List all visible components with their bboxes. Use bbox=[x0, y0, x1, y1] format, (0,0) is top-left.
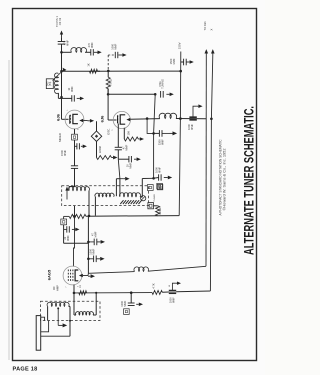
resistor R3 6800 ohm vertical bbox=[156, 206, 160, 216]
coil L1 (converter output) bbox=[71, 48, 87, 53]
coil L5 rf plate bbox=[95, 193, 114, 197]
tube V3 cathode arrow left bbox=[79, 274, 83, 277]
wire v below C1 bbox=[61, 44, 63, 71]
wire L3 to B+ vertical bbox=[176, 118, 206, 120]
schematic border frame bbox=[13, 9, 257, 361]
feedthrough capacitor C16 thick bbox=[169, 290, 176, 292]
svg-text:MMF: MMF bbox=[172, 58, 176, 64]
wire choke to feed1 bbox=[148, 266, 206, 271]
resistor R1 on bus bbox=[90, 69, 98, 73]
tube V3 rf amp envelope bbox=[63, 266, 82, 285]
svg-text:MMF: MMF bbox=[70, 86, 74, 92]
resistor R8 2200 ohm bbox=[97, 156, 112, 160]
feed wire 1 vertical bbox=[205, 55, 207, 266]
svg-text:OSC.: OSC. bbox=[106, 128, 110, 135]
bus wire to B+ vertical bbox=[98, 70, 181, 72]
svg-text:24.2: 24.2 bbox=[47, 81, 49, 86]
node junction at right vertical bbox=[210, 118, 213, 121]
tube V2 oscillator envelope bbox=[113, 111, 130, 128]
svg-text:MMF: MMF bbox=[113, 43, 117, 49]
antenna dashed box bbox=[41, 301, 101, 320]
wire osc cathode down to ground stub bbox=[118, 159, 120, 179]
feedthrough capacitor C7 (thick plates) bbox=[189, 116, 196, 118]
capacitor C13 22MMF branch bbox=[64, 228, 67, 230]
ground arrow after C13 bbox=[72, 228, 75, 230]
capacitor C15 1500MMF bbox=[88, 258, 93, 260]
tube V1 mixer envelope bbox=[65, 110, 84, 129]
dashed fine tuning link vertical bbox=[107, 55, 109, 71]
svg-text:X: X bbox=[210, 28, 214, 30]
svg-text:6J6: 6J6 bbox=[56, 113, 61, 120]
tube V2 grid bar bbox=[117, 116, 119, 124]
svg-text:6AG5: 6AG5 bbox=[46, 269, 51, 280]
svg-text:MMF: MMF bbox=[128, 162, 132, 168]
capacitor C9 47MMF bbox=[115, 146, 122, 148]
wire diamond down bbox=[96, 141, 98, 157]
antenna stub top bbox=[41, 317, 45, 321]
feed wire 2 vertical bbox=[210, 55, 212, 291]
tube V2 cathode arrow left bbox=[126, 118, 130, 121]
L5 left lead bbox=[94, 197, 96, 216]
svg-text:MMF: MMF bbox=[160, 139, 164, 145]
wire C12 lead bbox=[181, 61, 184, 63]
wire dash C3 left bbox=[108, 54, 115, 56]
wire R7 to grid row bbox=[107, 89, 109, 95]
variable coil L2 oscillator bbox=[55, 73, 59, 93]
coil L7 choke bbox=[134, 267, 149, 271]
wire osc coil top bbox=[61, 71, 63, 97]
L2 slug arrow bbox=[53, 69, 65, 81]
wire C10 lead bbox=[118, 158, 129, 160]
wire box M to R3 bbox=[154, 205, 158, 207]
svg-text:©Howard W. Sams & Co., Inc. 19: ©Howard W. Sams & Co., Inc. 1952 bbox=[222, 148, 226, 210]
svg-text:6J6: 6J6 bbox=[100, 115, 105, 122]
wire trimmer branch down bbox=[154, 94, 156, 178]
wire to pin1 arrow up bbox=[61, 35, 63, 39]
ground arrow after C4 bbox=[77, 97, 80, 99]
L2 frequency label box 24.2(54)MC bbox=[46, 79, 53, 89]
capacitor C3 trimmer bbox=[114, 52, 116, 58]
wire row y178 left stub bbox=[142, 177, 153, 179]
ground arrow after C15 bbox=[96, 258, 100, 260]
node junction ant lead bbox=[69, 320, 71, 322]
alignment box F bbox=[124, 309, 130, 315]
wire L1 to C2 bbox=[85, 51, 91, 53]
node junction grid agc bbox=[73, 292, 76, 295]
wire osc grid res lead bbox=[123, 128, 125, 139]
coil L4 mixer input bbox=[69, 187, 90, 191]
svg-text:150V: 150V bbox=[177, 42, 181, 49]
resistor R7 4700 ohm vertical bbox=[106, 77, 110, 89]
tube V1 grid bar bbox=[69, 115, 71, 124]
svg-text:PAGE 18: PAGE 18 bbox=[13, 366, 38, 372]
cathode column vertical bbox=[87, 216, 89, 273]
wire below box E bbox=[63, 225, 65, 244]
B+ vertical wire bbox=[179, 52, 181, 216]
capacitor C4 10MMF bbox=[71, 95, 73, 101]
wire fine tuning to osc grid bbox=[107, 89, 109, 95]
node junction L8 tap bbox=[57, 307, 59, 309]
L6 core hatching bbox=[120, 200, 123, 204]
coil L6 oscillator section bbox=[120, 193, 141, 197]
node junction osc grid wire bbox=[107, 93, 110, 96]
wire V1plate/rf top vertical bbox=[74, 206, 76, 217]
svg-text:MMF: MMF bbox=[123, 300, 127, 306]
svg-text:MMF: MMF bbox=[91, 248, 95, 254]
svg-text:1K: 1K bbox=[87, 63, 91, 66]
wire tap to coil L1 bbox=[62, 51, 72, 53]
capacitor C10 10MMF bbox=[128, 156, 130, 162]
wire osc grid down to tube bbox=[107, 94, 109, 120]
node junction row y178 bbox=[152, 177, 155, 180]
antenna lead upper bbox=[41, 321, 49, 332]
node junction coil tap bbox=[60, 51, 63, 54]
long horizontal bus y71 bbox=[62, 70, 101, 72]
capacitor C12 1500MMF bbox=[183, 59, 185, 66]
selector box M bbox=[148, 203, 154, 209]
resistor R6 4.7K bbox=[152, 290, 162, 294]
alignment box D on tuner bbox=[157, 184, 162, 189]
svg-text:(54): (54) bbox=[50, 82, 52, 86]
svg-text:ALTERNATE TUNER SCHEMATIC.: ALTERNATE TUNER SCHEMATIC. bbox=[241, 106, 256, 255]
bus corner down left bbox=[63, 216, 65, 219]
ground arrow after C18 bbox=[81, 145, 83, 147]
node junction B+ on plate row bbox=[179, 117, 182, 120]
svg-text:6800Ω: 6800Ω bbox=[159, 207, 162, 214]
L6 tap lead b bbox=[119, 179, 121, 197]
capacitor C2 bbox=[90, 49, 92, 55]
capacitor C5 1500MMF (series) bbox=[71, 165, 78, 167]
diamond alignment symbol bbox=[91, 131, 101, 141]
svg-text:TUNER: TUNER bbox=[154, 194, 156, 202]
wire R6 to C16 bbox=[162, 291, 168, 293]
arrow up feed 1 bbox=[205, 54, 207, 56]
wire C5 to tuner box bbox=[74, 168, 76, 186]
svg-text:TUNING: TUNING bbox=[162, 79, 165, 89]
ground arrow after C10 bbox=[134, 158, 137, 160]
link to L6 tap lead bbox=[116, 178, 120, 180]
wire osc cathode down bbox=[117, 124, 119, 148]
svg-text:4700Ω: 4700Ω bbox=[110, 79, 113, 87]
wire below box A bbox=[74, 140, 76, 166]
wire agc cap lead bbox=[130, 293, 132, 303]
ground arrow after C11 bbox=[164, 177, 168, 179]
svg-text:MMF: MMF bbox=[190, 124, 194, 130]
capacitor C11 1000MMF bbox=[158, 174, 160, 180]
capacitor C1 470MMF bbox=[58, 41, 66, 43]
agc row wire bbox=[74, 292, 152, 294]
scan shadow left margin bbox=[8, 60, 10, 360]
wire V3 grid down bbox=[73, 285, 75, 311]
wire mixer grid lead bbox=[61, 97, 63, 119]
tube V1 cathode ground bbox=[88, 120, 90, 122]
arrow up feed 2 bbox=[212, 54, 214, 56]
node junction mixer grid bbox=[60, 96, 63, 99]
ground arrow after C3 bbox=[118, 54, 122, 56]
coil L9 antenna secondary bbox=[76, 312, 94, 315]
ground arrow after C14 bbox=[97, 241, 101, 243]
C16 ground via arrow bbox=[172, 283, 175, 290]
svg-text:10K: 10K bbox=[126, 131, 130, 136]
wire below C9 bbox=[117, 150, 119, 159]
node junction B+ bus bbox=[179, 70, 182, 73]
svg-text:MIXER: MIXER bbox=[58, 133, 62, 142]
ground arrow after R2 bbox=[138, 138, 140, 140]
svg-text:MMF: MMF bbox=[125, 144, 129, 150]
node junction V1 plate on bus bbox=[73, 215, 76, 218]
resistor R5 cathode on agc row bbox=[79, 291, 87, 295]
alignment box A mixer bbox=[72, 134, 78, 140]
wire L2 bottom to C4 bbox=[57, 93, 59, 98]
tuner turret dashed box bbox=[62, 186, 149, 206]
svg-text:MMF: MMF bbox=[90, 42, 94, 48]
alignment box C on tuner bbox=[147, 185, 153, 191]
svg-text:OF V2: OF V2 bbox=[58, 17, 62, 25]
wire V2 lead vertical bbox=[61, 38, 63, 42]
alignment box B below C11 bbox=[157, 183, 163, 189]
node junction L9/agc bbox=[95, 292, 97, 294]
L4 left lead bbox=[68, 187, 70, 191]
tube V3 cathode ground bbox=[88, 275, 91, 277]
node junction L4 lead on bus bbox=[88, 215, 91, 218]
svg-text:MMF: MMF bbox=[66, 40, 70, 46]
wire bus to R7 bbox=[107, 71, 109, 77]
L6 tap lead a bbox=[115, 179, 117, 197]
svg-text:MMF: MMF bbox=[158, 167, 162, 173]
L9 left lead bbox=[74, 314, 76, 316]
ground arrow after C17 bbox=[136, 303, 139, 305]
wire plate branch down bbox=[147, 119, 154, 134]
node junction cap2 branch bbox=[87, 258, 90, 261]
resistor R2 10K bbox=[124, 137, 138, 141]
wire osc plate right bbox=[130, 118, 160, 121]
ground arrow after C6 bbox=[166, 93, 169, 95]
ground arrow after C2 bbox=[94, 51, 98, 53]
tube V1 cathode arrow left bbox=[79, 119, 83, 122]
L9 right lead bbox=[93, 314, 96, 316]
svg-text:MMF: MMF bbox=[94, 231, 98, 237]
wire row y178 to C11 bbox=[154, 177, 159, 180]
L4 tuning arrow bbox=[66, 190, 68, 200]
svg-text:MMF: MMF bbox=[63, 150, 67, 156]
L6 right lead bbox=[140, 196, 142, 198]
svg-text:2200Ω: 2200Ω bbox=[99, 146, 102, 153]
node junction cap1 branch bbox=[87, 241, 90, 244]
node junction trimmer branch bbox=[154, 93, 157, 96]
svg-text:AMP: AMP bbox=[55, 285, 59, 291]
wire C16 to feed2 bbox=[176, 290, 210, 293]
svg-text:TO R21: TO R21 bbox=[203, 21, 207, 31]
bus wire y216 bbox=[64, 215, 70, 217]
capacitor C6 osc trimmer bbox=[160, 91, 162, 98]
wire C8 to ground arrow bbox=[162, 132, 170, 134]
resistor R4 on bus bbox=[69, 214, 86, 218]
wire stub to cathode column bbox=[64, 242, 89, 244]
antenna lead lower bbox=[41, 335, 70, 337]
capacitor C17 1000MMF bbox=[128, 302, 135, 304]
wire rf plate vertical bbox=[74, 216, 75, 266]
coil L8 antenna primary bbox=[47, 302, 69, 306]
wire L6 right riser bbox=[141, 179, 143, 198]
wire mixer bottom lead bbox=[74, 129, 76, 134]
node junction 3300 branch bbox=[152, 132, 155, 135]
svg-text:MMF: MMF bbox=[66, 235, 70, 241]
capacitor C14 47MMF bbox=[88, 241, 94, 243]
wire cathode row bbox=[88, 272, 135, 276]
bus wire mid bbox=[86, 215, 179, 218]
node junction long bus bbox=[60, 70, 63, 73]
node junction grid-leak top bbox=[107, 70, 110, 73]
ground arrow after C12 bbox=[186, 61, 189, 63]
ground arrow after R8 bbox=[112, 157, 114, 159]
L8 right lead bbox=[69, 305, 70, 307]
alignment box E bbox=[61, 219, 67, 225]
capacitor C18 bypass branch bbox=[75, 145, 77, 147]
svg-text:4.7K: 4.7K bbox=[151, 283, 155, 289]
L8 left lead bbox=[47, 306, 49, 320]
coil L3 converter bbox=[159, 113, 176, 118]
osc cathode ground arrow bbox=[120, 178, 123, 180]
capacitor C8 3300MMF bbox=[158, 130, 160, 137]
L4 right lead down bbox=[88, 191, 90, 216]
svg-text:MMF: MMF bbox=[172, 297, 176, 303]
wire to C8 bbox=[154, 132, 160, 134]
wire osc grid horizontal bbox=[108, 93, 155, 95]
wire C7 up and ground arrow bbox=[193, 106, 197, 117]
node junction agc cap branch bbox=[130, 291, 133, 294]
node junction plate-cap branch bbox=[146, 117, 149, 120]
L8 center tap ground bbox=[57, 308, 59, 325]
antenna terminal bar bbox=[36, 316, 41, 351]
rotary indicator circle bbox=[141, 196, 146, 201]
wire cathode to diamond bbox=[96, 121, 98, 131]
